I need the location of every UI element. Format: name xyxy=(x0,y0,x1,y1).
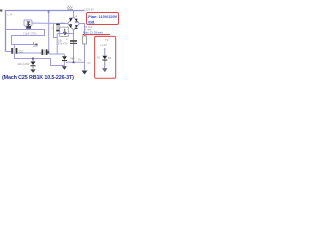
capacitor CX plates xyxy=(56,24,60,32)
junction dot on lower wire xyxy=(32,58,34,60)
wire bottom AC feed xyxy=(6,51,12,53)
label above bridge xyxy=(67,6,73,10)
wire drop from rail to fuse chain xyxy=(48,11,50,51)
wire after barrel B xyxy=(49,53,64,55)
bridge diode top-left xyxy=(69,19,72,22)
diode D1 xyxy=(31,62,36,66)
svg-text:0V: 0V xyxy=(88,61,91,65)
wire zener column in box xyxy=(104,48,106,56)
node L input tick xyxy=(0,10,2,12)
junction tick on rail xyxy=(48,11,50,14)
svg-text:25V: 25V xyxy=(58,42,63,46)
svg-text:L-N: L-N xyxy=(8,13,13,17)
wire between barrels xyxy=(17,52,41,54)
annotation red box 2 xyxy=(95,36,116,78)
svg-text:ZD: ZD xyxy=(108,56,112,60)
svg-text:(Mach C25 RB1K 10.5-226-3T): (Mach C25 RB1K 10.5-226-3T) xyxy=(2,75,74,81)
svg-text:Plan: 110V/220V: Plan: 110V/220V xyxy=(88,15,117,19)
svg-text:Vo: Vo xyxy=(78,57,82,61)
svg-text:5V1: 5V1 xyxy=(70,56,75,60)
svg-text:2.2µF 275V: 2.2µF 275V xyxy=(23,32,37,36)
wire mid loop xyxy=(6,30,45,45)
wire bridge output right xyxy=(80,24,85,71)
ground G1 xyxy=(30,69,35,72)
wire top rail xyxy=(6,11,85,52)
zener ZD2 xyxy=(102,56,107,60)
svg-text:+: + xyxy=(66,37,68,41)
resistor R box on drop xyxy=(83,36,87,44)
svg-text:1 12V 5V: 1 12V 5V xyxy=(84,8,95,11)
ground G3 xyxy=(82,71,88,75)
junction on lower wire xyxy=(36,44,38,46)
zener ZD1 xyxy=(62,56,67,60)
wire output rail xyxy=(66,61,85,63)
stub above junction xyxy=(33,42,35,45)
svg-text:10Ω: 10Ω xyxy=(18,49,23,53)
junction under fuse xyxy=(26,26,31,29)
bridge rectifier BD1 xyxy=(68,17,80,30)
svg-text:TS: TS xyxy=(105,38,109,42)
junction at barrel B xyxy=(48,51,50,54)
junction dot cap to rail xyxy=(73,61,75,63)
svg-text:22k 1/2W: 22k 1/2W xyxy=(18,62,30,66)
ground G2 xyxy=(62,66,67,70)
wire lower loop xyxy=(15,53,65,66)
resistor barrel B xyxy=(42,49,48,55)
fuse F1 box xyxy=(24,20,32,26)
wire under relay xyxy=(54,24,58,38)
bridge diode top-right xyxy=(75,19,78,22)
annotation red box 1 xyxy=(87,13,119,25)
bridge connection to rail xyxy=(73,11,75,17)
wire bridge bottom drop with cap xyxy=(73,30,75,63)
svg-text:+1.4V: +1.4V xyxy=(100,43,107,47)
wire fuse chain xyxy=(24,22,68,25)
capacitor C1 plates xyxy=(70,40,77,42)
fuse barrel A xyxy=(11,48,17,54)
wire stub to barrel A xyxy=(13,45,15,59)
annotation red underline xyxy=(83,34,111,35)
bridge diode bottom-right xyxy=(75,25,78,28)
svg-text:2n2: 2n2 xyxy=(33,44,38,48)
ground G4 xyxy=(104,61,106,69)
relay box U1 xyxy=(60,27,69,36)
wire relay to cap drop xyxy=(57,34,73,55)
svg-text:5V: 5V xyxy=(97,56,100,60)
svg-text:out: out xyxy=(88,20,95,24)
svg-text:470: 470 xyxy=(63,42,68,46)
bridge diode bottom-left xyxy=(69,25,72,28)
svg-text:104: 104 xyxy=(60,21,65,25)
fuse F1 marks xyxy=(27,21,30,26)
junction dot xyxy=(65,33,67,35)
relay arrow xyxy=(63,29,66,35)
